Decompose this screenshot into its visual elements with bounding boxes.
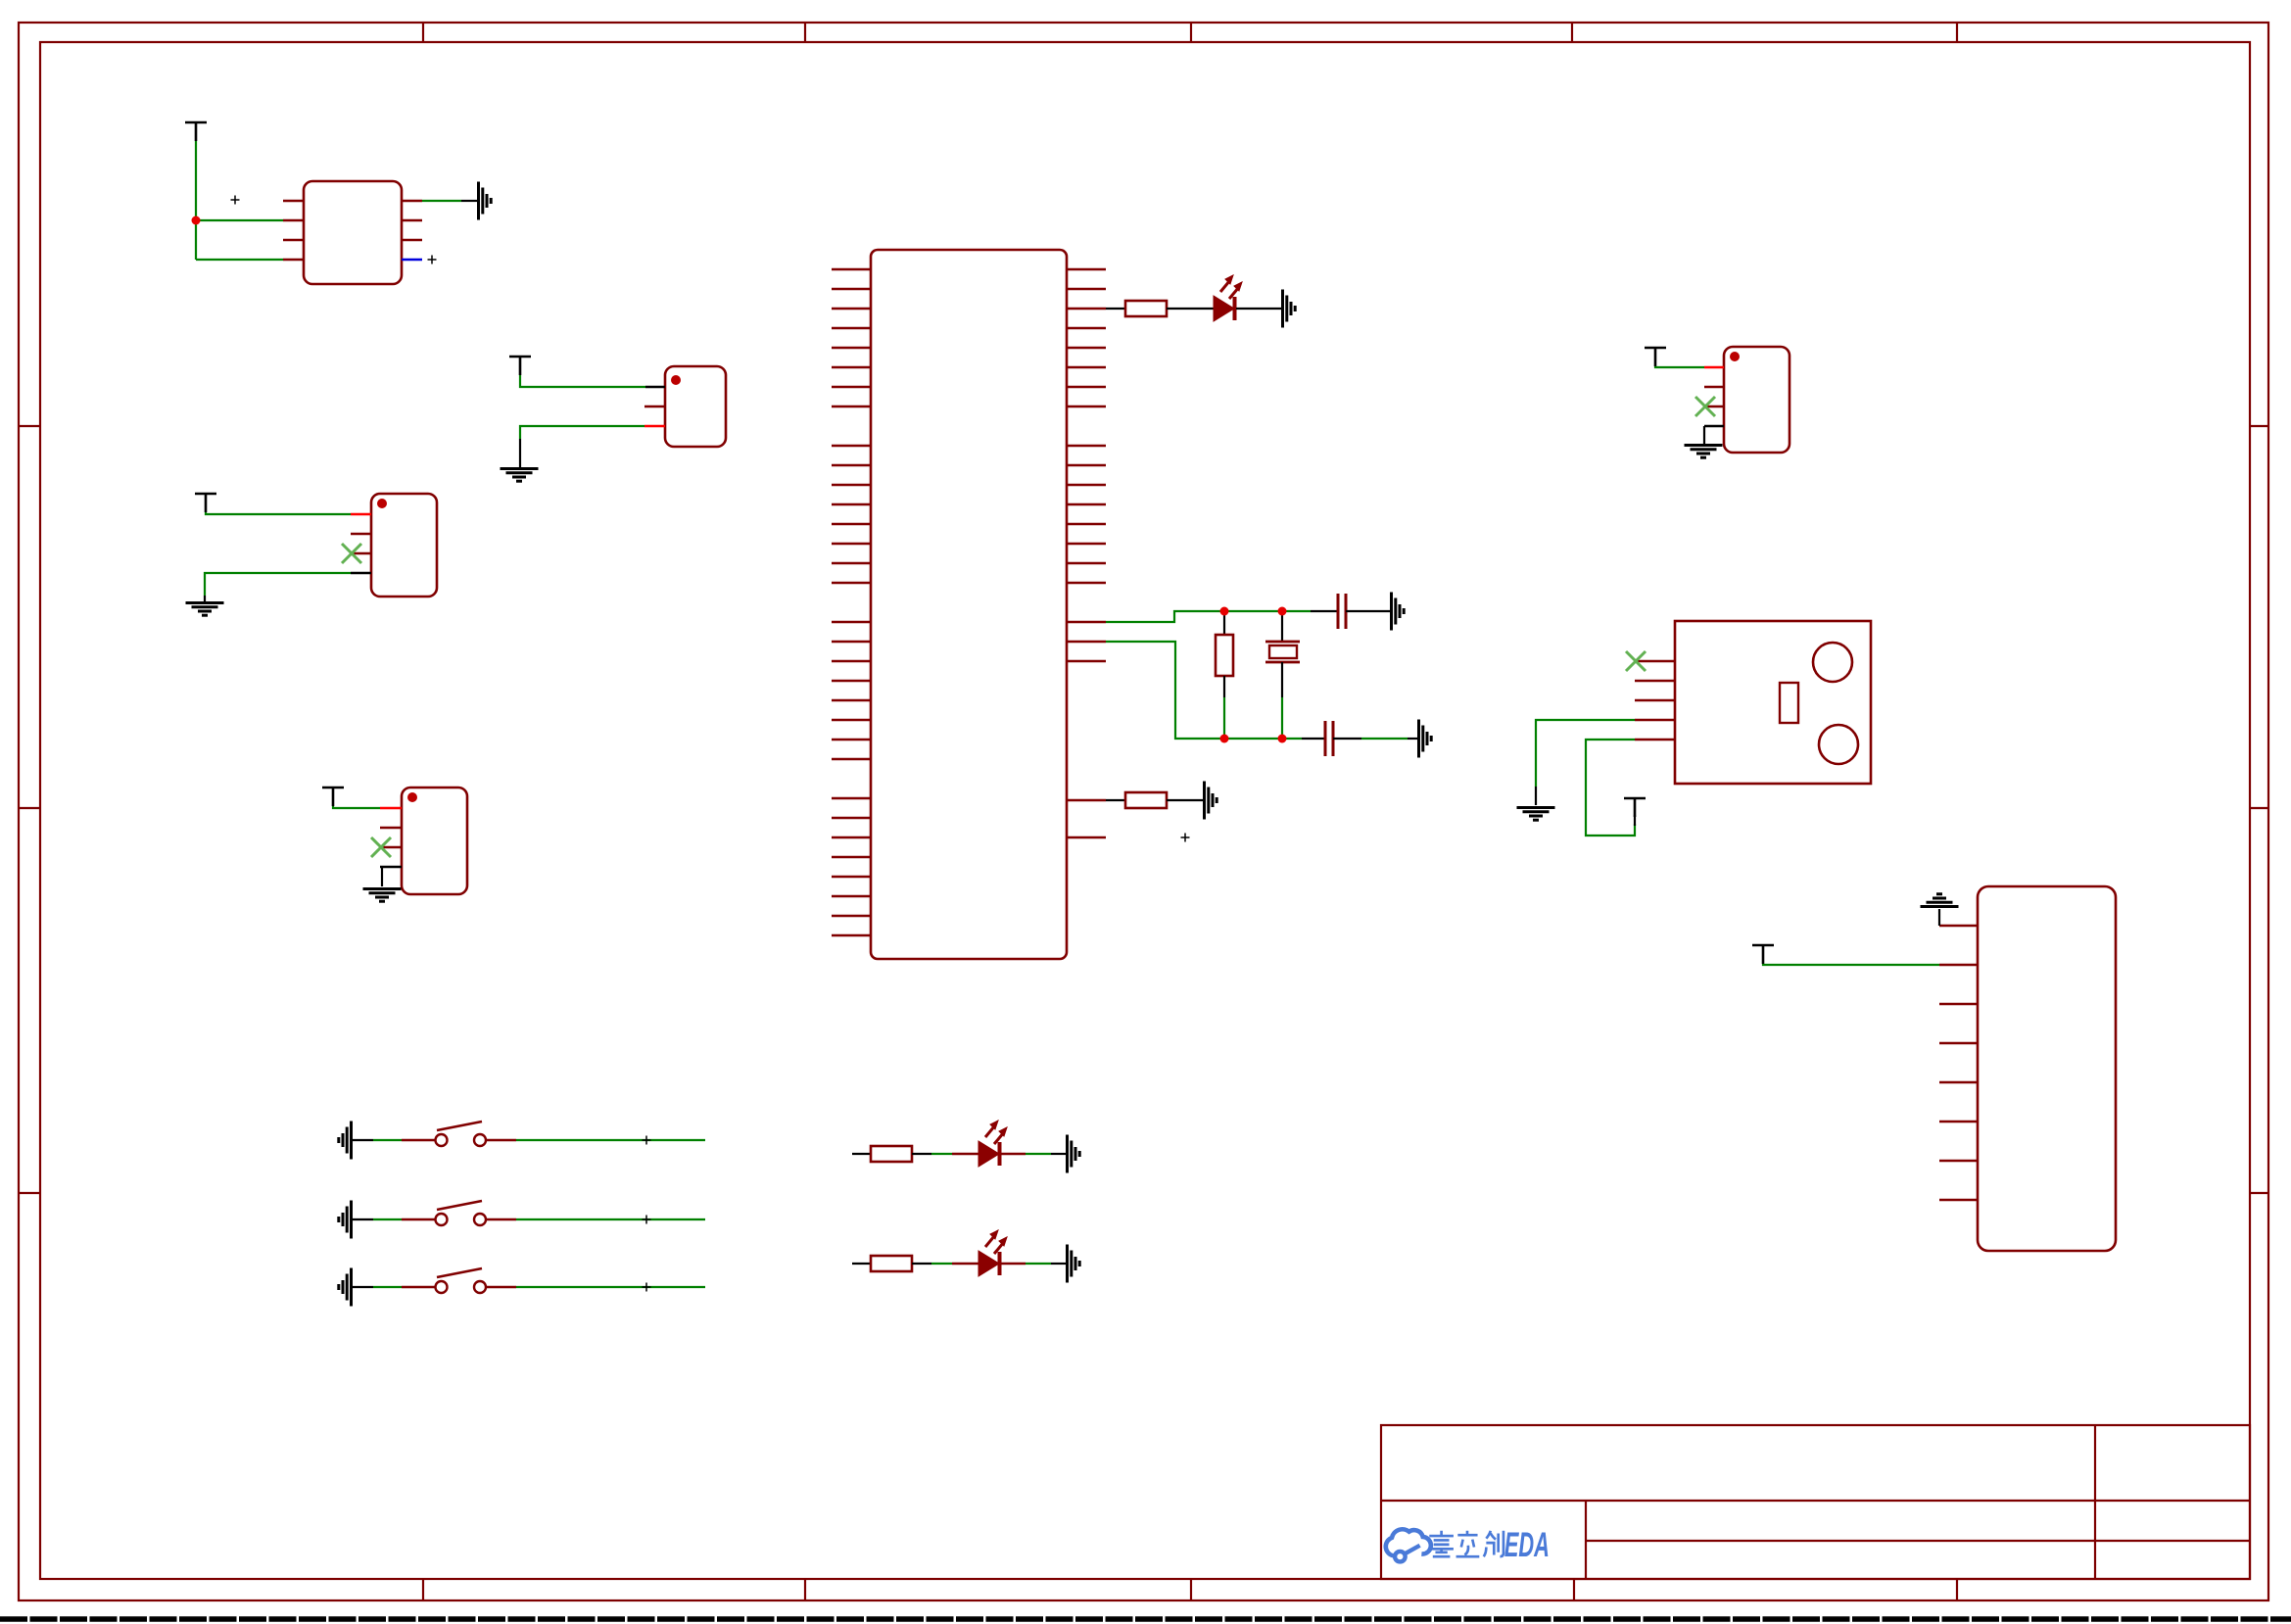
capacitor C2 [1325,721,1333,756]
title block middle row divider [1586,1540,2250,1542]
SW1 pin A [402,1139,435,1141]
zone tick top 1 [422,23,424,42]
crystal X1 [1281,611,1283,642]
U3 pin5 [1635,739,1675,740]
U2 left pins group 2 [832,446,871,583]
ground (down) at P2 pin4 [186,603,224,616]
wire bottom rail to C2 [1302,738,1325,740]
power flag VCC7 [1752,945,1774,964]
wire U2 reset pin to R3 [1106,799,1125,801]
U2 left pins group 3 [832,622,871,759]
wire LED2 to ground [1001,1153,1026,1155]
power flag VCC1 [185,122,207,141]
P4 pin1 [1704,366,1724,368]
svg-text:EDA: EDA [1504,1526,1550,1565]
P5 pin3 [1939,1003,1978,1005]
wire joint mark SW1 [643,1136,651,1145]
LED LED2 [978,1121,1007,1167]
U2 right pins group 1 [1067,269,1106,406]
wire VCC2 to P1 pin1 [520,375,645,387]
P5 pin6 [1939,1121,1978,1122]
power flag VCC2 [509,357,531,375]
junction dot OSC1-R2 [1220,607,1229,616]
P2 pin1 polarity dot [377,499,387,508]
no-connect X on P3 pin3 [371,837,391,857]
connector P5 (bottom right) [1978,886,2116,1251]
U3 pin1 [1635,660,1675,662]
plus mark near U2 boot pin [1181,834,1190,842]
wire U2 pin to R1 [1106,308,1125,310]
U2 right pins group 2 [1067,446,1106,583]
ground (up) at P5 pin1 [1921,894,1959,907]
wire VCC4 to P3 pin1 [333,806,380,808]
LED chain 2 (R4 + LED2) [852,1121,1079,1173]
wire U2 OSC1 to crystal top rail [1106,611,1311,622]
SW1 contacts and lever [436,1134,448,1146]
wire C2 to ground (black-green-black) [1333,738,1361,740]
switch SW2 [339,1201,705,1239]
no-connect X on U3 pin1 [1626,651,1646,671]
LED chain 3 (R5 + LED3) [852,1230,1079,1283]
wire VCC3 to P2 pin1 [206,512,351,514]
P5 pin4 [1939,1042,1978,1044]
JLCEDA logo character chuang [1484,1531,1503,1556]
connector P2 [371,494,437,597]
IC U2 (main MCU) [871,250,1067,959]
power flag VCC3 [195,494,216,512]
resistor R3 [1125,792,1167,808]
wire P4 pin4 to ground [1703,426,1705,444]
JLCEDA logo cloud icon [1386,1529,1431,1561]
plus mark near U1 pin1 [231,196,240,205]
ground (right facing) at LED1 [1283,290,1296,328]
P5 pin2 [1939,964,1978,966]
U2 right pins group 3 (OSC) [1067,622,1106,661]
P3 pin4 [380,866,402,868]
wire SW1 output [516,1139,705,1141]
no-connect X on P2 pin3 [342,544,361,563]
JLCEDA logo character jia [1429,1531,1454,1556]
LED LED1 [1214,275,1242,321]
P1 pin3 [644,425,665,427]
wire VCC1 to U1 pin2/pin4 [196,141,283,260]
connector P4 [1724,347,1790,453]
zone tick top 3 [1190,23,1192,42]
power flag VCC6 [1624,798,1646,817]
U1 right pins 5-7 [402,201,422,240]
junction dot OSC1-X1 [1278,607,1287,616]
wire ground to SW1 [353,1139,373,1141]
resistor R1 [1125,301,1167,316]
wire R3 to ground [1167,799,1203,801]
P2 pin4 [351,572,371,574]
P2 pin3 [351,552,371,554]
U2 left pins group 1 [832,269,871,406]
zone tick bottom 1 [422,1579,424,1600]
power flag VCC5 [1645,348,1666,366]
wire P3 pin4 to ground [381,867,383,886]
title block horizontal divider [1381,1500,2250,1502]
zone tick bottom 5 [1956,1579,1958,1600]
ground (right facing) at C1 [1392,593,1405,631]
wire stub black to ground [204,596,206,601]
P4 pin4 [1704,425,1724,427]
switch SW3 [339,1268,705,1307]
title block logo cell right edge [1585,1501,1587,1579]
ground (right facing) at R3 [1205,782,1217,820]
JLCEDA logo character li [1456,1531,1480,1556]
U3 pin2 [1635,680,1675,682]
ultrasonic module U3 [1675,621,1871,784]
wire U3 pin5 to VCC6 [1586,740,1635,836]
zone tick right 2 [2250,807,2268,809]
wire stub black to ground [461,200,477,202]
P5 pin5 [1939,1081,1978,1083]
junction dot OSC2-R2 [1220,735,1229,743]
wire U2 OSC2 to crystal bottom rail [1106,642,1302,739]
wire top rail to C1 [1311,610,1338,612]
junction dot OSC2-X1 [1278,735,1287,743]
wire U3 pin4 to ground [1536,720,1635,787]
wire U1 pin5 to ground [422,200,461,202]
wire P2 pin4 to ground [205,573,351,596]
title block outline [1381,1425,2250,1579]
wire R4 to LED2 [912,1153,931,1155]
zone tick left 1 [19,425,40,427]
capacitor C1 [1338,594,1346,629]
plus mark near U1 pin8 [428,256,437,264]
ground (down) at P1 pin3 [501,469,539,482]
ground (left facing) SW1 [339,1122,352,1160]
P5 pin1 [1939,925,1978,927]
U2 right pin (reset) [1067,799,1106,801]
U1 right pin 8 (blue net) [402,259,422,262]
resistor R2 (feedback, vertical) [1223,611,1225,635]
wire VCC7 to P5 pin2 [1763,964,1939,965]
ground (right facing) at U1 pin5 [479,182,492,220]
wire P5 pin1 to ground [1938,909,1940,926]
wire R1 to LED1 [1167,308,1214,310]
P1 pin2 [644,406,665,407]
P1 pin1 [645,386,665,388]
title block vertical divider [2094,1425,2096,1579]
zone tick bottom 4 [1573,1579,1575,1600]
no-connect X on P4 pin3 [1695,397,1715,416]
zone tick top 2 [804,23,806,42]
P1 pin1 polarity dot [671,375,681,385]
P2 pin1 [351,513,371,515]
wire P1 pin3 to ground [520,426,644,439]
U2 left pins group 4 [832,798,871,935]
U3 pin4 [1635,719,1675,721]
canvas page edge dashed line [0,1616,2291,1622]
connector P3 [402,788,467,894]
IC U1 [304,181,402,284]
U1 left pins 1-4 [283,201,304,260]
zone tick left 3 [19,1192,40,1194]
wire stub black to ground [519,439,521,467]
zone tick right 1 [2250,425,2268,427]
U3 pin3 [1635,699,1675,701]
U3 transducer circle bottom [1819,725,1858,764]
P4 pin3 [1704,406,1724,407]
zone tick bottom 2 [804,1579,806,1600]
U2 right pin (boot) [1067,836,1106,838]
junction dot on VCC1 net [192,216,201,225]
zone tick bottom 3 [1190,1579,1192,1600]
ground (right facing) at C2 [1419,720,1432,758]
zone tick top 4 [1571,23,1573,42]
P4 pin2 [1704,386,1724,388]
power flag VCC4 [322,788,344,806]
wire LED1 to ground [1236,308,1281,310]
wire C1 to ground [1346,610,1390,612]
connector P1 [665,366,726,447]
P3 pin3 [380,846,402,848]
wire input to R4 [852,1153,871,1155]
U3 transducer circle top [1813,643,1852,682]
P3 pin2 [380,827,402,829]
switch SW1 [339,1122,705,1160]
P2 pin2 [351,533,371,535]
zone tick left 2 [19,807,40,809]
P4 pin1 polarity dot [1730,352,1740,361]
zone tick right 3 [2250,1192,2268,1194]
ground (down) at P4 pin4 [1685,446,1723,458]
ground (right facing) at LED2 [1068,1135,1080,1173]
SW1 pin B [486,1139,516,1141]
P5 pin8 [1939,1199,1978,1201]
P3 pin1 polarity dot [407,792,417,802]
zone tick top 5 [1956,23,1958,42]
P3 pin1 [380,807,402,809]
P5 pin7 [1939,1160,1978,1162]
resistor R4 [871,1146,912,1162]
ground (down) at U3 pin4 [1517,808,1555,821]
ground (down) at P3 pin4 [363,889,402,902]
wire VCC5 to P4 pin1 [1655,366,1704,367]
U3 crystal rect [1780,683,1798,723]
